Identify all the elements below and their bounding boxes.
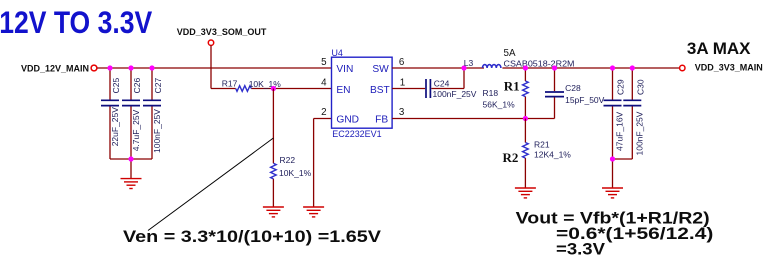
junction dots input rail bbox=[107, 65, 112, 70]
ground R22 bbox=[263, 207, 284, 217]
ground left caps bbox=[121, 179, 142, 189]
svg-text:R1: R1 bbox=[504, 79, 520, 94]
wire ground stub right bbox=[612, 159, 614, 188]
wire GND pin2 bbox=[314, 119, 332, 207]
svg-text:FB: FB bbox=[375, 115, 388, 126]
svg-text:C26: C26 bbox=[132, 78, 142, 94]
wire FB line bbox=[392, 118, 554, 120]
junction dot EN node bbox=[271, 86, 276, 91]
capacitor C26 bbox=[122, 68, 142, 159]
svg-text:47uF_16V: 47uF_16V bbox=[615, 111, 625, 151]
wire SW line bbox=[392, 67, 679, 69]
svg-text:3A MAX: 3A MAX bbox=[687, 39, 751, 58]
svg-text:5: 5 bbox=[321, 57, 327, 68]
svg-text:6: 6 bbox=[399, 57, 405, 68]
inductor L3 bbox=[483, 65, 501, 68]
terminal VDD_3V3_SOM_OUT bbox=[208, 40, 213, 45]
ground output caps bbox=[602, 188, 623, 198]
resistor R22 bbox=[271, 163, 277, 179]
svg-text:=3.3V: =3.3V bbox=[556, 240, 605, 258]
junction dot SW/C24 node bbox=[461, 65, 466, 70]
svg-text:C25: C25 bbox=[111, 78, 121, 94]
svg-text:BST: BST bbox=[370, 85, 390, 96]
svg-text:100nF_25V: 100nF_25V bbox=[152, 109, 162, 153]
svg-text:12V TO 3.3V: 12V TO 3.3V bbox=[0, 4, 152, 40]
capacitor C30 bbox=[623, 68, 645, 159]
svg-text:12K4_1%: 12K4_1% bbox=[534, 149, 571, 159]
junction dot bottom rail right bbox=[610, 156, 615, 161]
ground R21 bbox=[515, 188, 536, 198]
svg-text:100nF_25V: 100nF_25V bbox=[433, 89, 477, 99]
wire BST line bbox=[392, 68, 464, 89]
svg-text:4: 4 bbox=[321, 78, 327, 89]
svg-text:C24: C24 bbox=[434, 79, 450, 89]
junction dot bottom rail left bbox=[128, 156, 133, 161]
svg-text:U4: U4 bbox=[332, 48, 343, 58]
svg-text:VDD_3V3_SOM_OUT: VDD_3V3_SOM_OUT bbox=[177, 27, 267, 37]
op IC U4 EC2232EV1 bbox=[332, 48, 393, 139]
wire R22 branch bbox=[272, 89, 274, 207]
svg-text:C27: C27 bbox=[153, 78, 163, 94]
svg-text:22uF_25V: 22uF_25V bbox=[110, 107, 120, 147]
svg-text:EN: EN bbox=[336, 85, 350, 96]
svg-text:VIN: VIN bbox=[336, 64, 353, 75]
svg-text:R2: R2 bbox=[503, 150, 519, 165]
svg-text:1: 1 bbox=[400, 78, 405, 89]
svg-text:L3: L3 bbox=[464, 58, 474, 68]
svg-text:C29: C29 bbox=[616, 79, 626, 95]
wire main 12V rail bbox=[97, 67, 331, 69]
svg-text:R17: R17 bbox=[222, 79, 238, 89]
resistor R18 bbox=[483, 68, 529, 119]
svg-text:VDD_3V3_MAIN: VDD_3V3_MAIN bbox=[695, 63, 763, 73]
terminal VDD_12V_MAIN bbox=[91, 65, 97, 71]
resistor R17 bbox=[236, 86, 252, 92]
wire ground stub left bbox=[130, 159, 132, 178]
svg-text:GND: GND bbox=[336, 115, 359, 126]
annotation pointer line bbox=[148, 138, 273, 231]
capacitor C28 bbox=[545, 68, 605, 119]
svg-text:R18: R18 bbox=[483, 88, 499, 98]
svg-text:Ven = 3.3*10/(10+10) =1.65V: Ven = 3.3*10/(10+10) =1.65V bbox=[123, 228, 381, 246]
svg-text:100nF_25V: 100nF_25V bbox=[634, 111, 644, 155]
svg-text:R21: R21 bbox=[534, 139, 550, 149]
svg-text:10K_1%: 10K_1% bbox=[279, 168, 312, 178]
junction dot C28 top bbox=[552, 65, 557, 70]
svg-text:10K_1%: 10K_1% bbox=[249, 79, 282, 89]
svg-text:C30: C30 bbox=[635, 79, 645, 95]
svg-text:VDD_12V_MAIN: VDD_12V_MAIN bbox=[21, 63, 89, 73]
junction dot FB node bbox=[523, 116, 528, 121]
junction dot R18 top bbox=[523, 65, 528, 70]
svg-text:R22: R22 bbox=[280, 155, 296, 165]
capacitor C29 bbox=[604, 68, 626, 159]
svg-text:15pF_50V: 15pF_50V bbox=[565, 95, 605, 105]
wire SOM_OUT vertical bbox=[210, 45, 212, 88]
wire bottom rail left bbox=[110, 158, 152, 160]
svg-text:C28: C28 bbox=[565, 83, 581, 93]
capacitor C24 bbox=[426, 79, 477, 99]
svg-text:56K_1%: 56K_1% bbox=[483, 99, 516, 109]
capacitor C25 bbox=[101, 68, 121, 159]
wire bottom rail right bbox=[613, 158, 633, 160]
svg-text:2: 2 bbox=[321, 107, 326, 118]
resistor R21 bbox=[523, 119, 572, 188]
ground U4 pin2 bbox=[303, 207, 324, 217]
svg-text:EC2232EV1: EC2232EV1 bbox=[332, 129, 381, 139]
svg-text:4.7uF_25V: 4.7uF_25V bbox=[131, 109, 141, 151]
terminal VDD_3V3_MAIN bbox=[680, 65, 685, 70]
junction dots output rail bbox=[610, 65, 615, 70]
capacitor C27 bbox=[143, 68, 163, 159]
svg-text:CSAB0518-2R2M: CSAB0518-2R2M bbox=[504, 58, 575, 68]
svg-text:SW: SW bbox=[372, 64, 389, 75]
svg-text:3: 3 bbox=[399, 107, 405, 118]
wire EN line bbox=[211, 88, 332, 90]
